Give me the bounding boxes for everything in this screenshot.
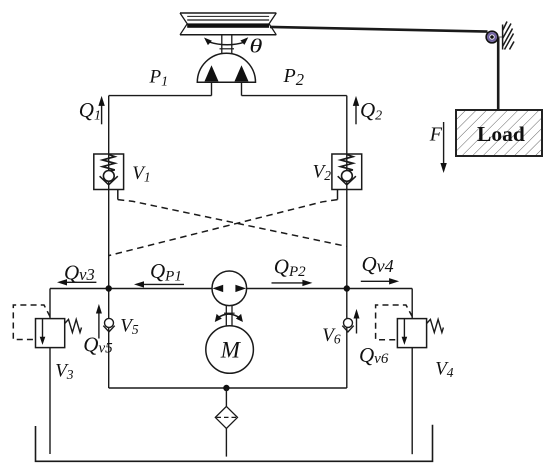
svg-text:F: F [429,123,443,145]
pulley axle stub [496,36,503,38]
svg-text:P2: P2 [283,65,304,89]
winch drum [180,13,276,35]
svg-text:V2: V2 [313,162,332,184]
pump P (bidirectional) [212,271,247,306]
arrow QP1 [134,281,184,287]
shaft drum-motor [220,35,235,54]
wire P2 horizontal [242,95,347,97]
wire mid horizontal right [246,288,412,290]
force arrow F [440,122,446,173]
rotation arrows pump shaft [215,313,243,322]
arrow Qv4 [361,278,399,284]
arrow Q1 [98,96,104,124]
pilot line V4 (dashed) [376,305,413,340]
pilot line V1 (dashed to right branch) [118,190,347,246]
svg-text:V6: V6 [322,325,341,347]
svg-text:θ: θ [249,35,262,57]
arrow Qv6 up [354,309,360,334]
svg-text:Qv6: Qv6 [359,343,389,367]
arrow Q2 [353,96,359,124]
svg-text:QP2: QP2 [274,255,306,281]
wire right branch to V4 [411,289,413,319]
svg-text:Load: Load [477,122,525,146]
relief valve V4 [397,319,443,348]
arrow QP2 [272,280,313,286]
wire V3 to tank [49,348,51,454]
electric motor M [206,326,254,374]
pilot line V3 (dashed) [13,305,50,340]
wire mid horizontal left [50,288,213,290]
arrow Qv3 [57,279,96,285]
check valve V6 [342,318,353,332]
relief valve V3 [36,319,82,348]
svg-text:V1: V1 [132,163,150,185]
cable down to load [497,37,500,111]
load box [456,110,542,156]
svg-text:Qv4: Qv4 [362,252,394,276]
rotation arrows theta [204,37,248,45]
wire dome right port [241,82,243,95]
shaft pump-motor [226,305,232,326]
svg-text:Q2: Q2 [360,98,382,124]
svg-text:P1: P1 [149,66,169,89]
check valve V1 [94,154,124,190]
svg-text:V3: V3 [55,361,74,383]
node right junction [344,285,350,291]
wire P1 horizontal [109,95,212,97]
filter [215,406,237,428]
svg-text:Q1: Q1 [79,98,101,124]
svg-text:Qv3: Qv3 [64,261,95,285]
svg-text:M: M [220,337,242,362]
node filter junction [223,385,229,391]
svg-text:V5: V5 [120,316,139,338]
wire bottom loop [109,387,347,389]
wire filter to tank [225,428,227,456]
arrow Qv5 [96,304,102,339]
node left junction [106,285,112,291]
wire left branch to V3 [49,289,51,319]
tank [36,425,433,462]
wire dome left port [211,82,213,95]
wire right main vertical [346,96,348,388]
hydraulic pump/motor dome A1 [197,53,255,82]
wire junction to filter [225,388,227,406]
cable from drum to pulley [270,27,488,32]
svg-text:V4: V4 [435,359,454,381]
pulley [486,31,498,43]
pilot line V2 (dashed to left branch) [109,190,338,256]
svg-text:QP1: QP1 [150,259,182,285]
check valve V5 [103,318,114,332]
wire V4 to tank [411,348,413,455]
wall mount hatching [503,22,514,50]
check valve V2 [332,154,362,190]
wire left main vertical [108,96,110,388]
